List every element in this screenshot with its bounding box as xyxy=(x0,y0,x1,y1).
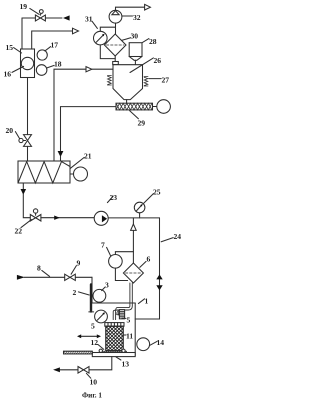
spring 27 right xyxy=(144,77,148,86)
svg-text:21: 21 xyxy=(84,152,92,161)
wire blower down xyxy=(115,23,117,34)
svg-text:10: 10 xyxy=(90,378,98,387)
label 10 pointer xyxy=(86,373,90,378)
flow arrows on line 24 xyxy=(156,274,162,279)
svg-text:28: 28 xyxy=(149,37,157,46)
node A branch to vent arrow right xyxy=(54,69,86,161)
svg-text:8: 8 xyxy=(37,264,41,273)
level glass 2 (bold bar) xyxy=(90,285,92,312)
drain wire xyxy=(60,357,112,370)
screw feeder 29 xyxy=(116,103,153,110)
svg-text:25: 25 xyxy=(153,188,161,197)
valve 10 xyxy=(78,367,89,374)
tank 15 xyxy=(21,49,35,78)
inlet arrow (filled, pointing left) xyxy=(63,15,70,20)
label 16 pointer xyxy=(12,66,24,72)
label 29 pointer xyxy=(130,111,139,119)
label 5 (nozzle) dash xyxy=(122,317,126,319)
filter 30 (diamond) xyxy=(104,34,126,56)
label 28 pointer xyxy=(142,39,149,43)
wire valve 22 to pump 23 xyxy=(41,217,94,219)
gauge 31 stub xyxy=(100,27,115,31)
label 14 pointer xyxy=(149,341,157,345)
wire into reactor xyxy=(91,277,93,303)
label 24 dash xyxy=(161,238,173,242)
heat exchanger 21 xyxy=(18,161,70,183)
label 7 pointer xyxy=(107,247,111,255)
pump 23 xyxy=(94,211,108,225)
label 6 pointer xyxy=(140,261,146,267)
valve 19 xyxy=(35,15,45,21)
svg-text:16: 16 xyxy=(4,70,12,79)
svg-text:6: 6 xyxy=(147,255,151,264)
svg-text:2: 2 xyxy=(73,288,77,297)
label 19 pointer xyxy=(30,8,39,14)
label 32 lead xyxy=(122,15,133,17)
label 22 pointer xyxy=(21,220,31,228)
svg-text:7: 7 xyxy=(101,241,105,250)
label 23 pointer xyxy=(107,196,113,202)
label 21 pointer xyxy=(70,157,84,168)
svg-text:29: 29 xyxy=(138,119,146,128)
travel arrow (double headed) xyxy=(80,335,98,337)
label 9 pointer xyxy=(71,266,76,275)
label 30 pointer xyxy=(122,38,131,41)
svg-text:4: 4 xyxy=(116,309,120,318)
svg-text:22: 22 xyxy=(15,227,23,236)
valve 9 xyxy=(65,274,76,280)
svg-text:13: 13 xyxy=(122,360,130,369)
screw motor xyxy=(153,106,157,108)
circle 16 (pump in tank) xyxy=(21,57,33,69)
rotameter 18 xyxy=(36,65,47,76)
svg-text:23: 23 xyxy=(110,193,118,202)
svg-text:18: 18 xyxy=(54,60,62,69)
label 2 pointer xyxy=(78,292,89,295)
label 25 pointer xyxy=(144,194,154,204)
motor circle of exchanger xyxy=(70,173,74,175)
blower 32 xyxy=(109,10,122,23)
filter 6 (diamond) xyxy=(123,263,143,283)
svg-text:1: 1 xyxy=(145,297,149,306)
wire branch down to filter 6 xyxy=(132,218,134,263)
line 8 inlet arrow xyxy=(17,275,25,280)
label 20 pointer xyxy=(15,132,19,139)
feed pipe from filter 6 down (hose, double wall) xyxy=(116,283,130,320)
wire pump to line 24 xyxy=(108,217,159,219)
label 1 pointer xyxy=(138,299,144,304)
valve 22 xyxy=(30,215,41,222)
svg-text:19: 19 xyxy=(20,2,28,11)
spring 27 left xyxy=(107,76,111,85)
wire vent line with open arrow xyxy=(32,31,73,49)
rail (hatched) xyxy=(64,351,93,354)
wire exchanger outlet down xyxy=(22,183,24,189)
valve 20 xyxy=(24,135,32,141)
svg-text:9: 9 xyxy=(77,259,81,268)
label 26 pointer xyxy=(130,58,153,73)
circle 14 xyxy=(137,338,150,351)
label 8 pointer xyxy=(42,270,50,276)
reactor 1 top edge xyxy=(92,302,135,304)
trolley deck (hatched) xyxy=(101,351,127,354)
wire line 8 xyxy=(24,276,92,278)
svg-text:Фиг. 1: Фиг. 1 xyxy=(82,392,102,400)
svg-text:14: 14 xyxy=(157,338,165,347)
svg-text:20: 20 xyxy=(6,126,14,135)
wire valve 20 to heat exchanger xyxy=(27,146,29,161)
label 12 pointer xyxy=(98,344,104,349)
label 27 dash xyxy=(149,78,161,80)
label 13 pointer xyxy=(116,357,121,360)
hopper 26 xyxy=(113,65,143,100)
pump 7 loop bottom xyxy=(115,268,127,280)
label 11 dash xyxy=(124,334,127,336)
svg-text:5: 5 xyxy=(127,316,131,325)
catalyst box 11 flange xyxy=(105,323,124,327)
svg-text:11: 11 xyxy=(126,332,133,341)
pump 7 xyxy=(109,254,123,268)
svg-text:12: 12 xyxy=(91,338,99,347)
rollers xyxy=(99,349,102,352)
label 15 pointer xyxy=(14,48,22,53)
svg-text:3: 3 xyxy=(105,281,109,290)
open up arrow on branch xyxy=(131,224,137,230)
label 31 pointer xyxy=(92,21,97,28)
circle 3 xyxy=(93,289,106,302)
wire return line from screw feeder into exchanger xyxy=(61,107,117,151)
svg-text:31: 31 xyxy=(85,15,93,24)
line 24 (vertical) xyxy=(135,218,159,319)
svg-text:26: 26 xyxy=(154,56,162,65)
wire left pipe down to tank 15 xyxy=(21,18,23,49)
label 3 pointer xyxy=(102,287,105,290)
wire top feed line to valve 19 xyxy=(22,17,62,19)
gauge 31 lower line xyxy=(100,45,115,59)
feeder vessel 28 xyxy=(129,43,142,57)
svg-text:24: 24 xyxy=(174,232,182,241)
rotameter 17 xyxy=(37,50,47,60)
gauge 25 xyxy=(139,213,141,218)
drain arrow (filled left) xyxy=(53,367,60,372)
reactor 1 right wall xyxy=(134,303,136,356)
svg-text:5: 5 xyxy=(91,322,95,331)
gauge 5 xyxy=(95,310,108,323)
svg-text:17: 17 xyxy=(51,41,59,50)
gauge 31 xyxy=(94,31,108,45)
pump 7 loop top xyxy=(115,252,133,255)
catalyst box 11 body (crosshatched) xyxy=(106,326,123,350)
wire tank outlet down xyxy=(27,78,29,135)
hopper inlet box xyxy=(113,62,119,65)
svg-text:32: 32 xyxy=(133,13,141,22)
svg-text:27: 27 xyxy=(162,76,170,85)
svg-text:15: 15 xyxy=(6,43,14,52)
trolley plate 13 xyxy=(92,353,135,357)
wire filter 30 to hopper inlet xyxy=(114,56,116,62)
flow arrow (filled right) xyxy=(54,216,60,220)
bellows 4 xyxy=(119,310,124,319)
svg-text:30: 30 xyxy=(131,32,139,41)
